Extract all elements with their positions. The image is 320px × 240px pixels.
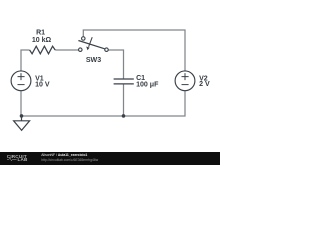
svg-text:AlisonNF / Aula11_exercicio1: AlisonNF / Aula11_exercicio1 (41, 153, 87, 157)
svg-text:10 V: 10 V (35, 82, 50, 89)
svg-text:LAB: LAB (18, 157, 29, 162)
svg-text:SW3: SW3 (86, 57, 101, 64)
svg-text:2 V: 2 V (199, 81, 210, 88)
svg-text:R1: R1 (36, 29, 45, 36)
svg-text:10 kΩ: 10 kΩ (32, 37, 52, 44)
svg-text:http://circuitlab.com/c/6E365m: http://circuitlab.com/c/6E365mrrhg46w (41, 158, 98, 162)
svg-text:100 μF: 100 μF (136, 81, 159, 88)
